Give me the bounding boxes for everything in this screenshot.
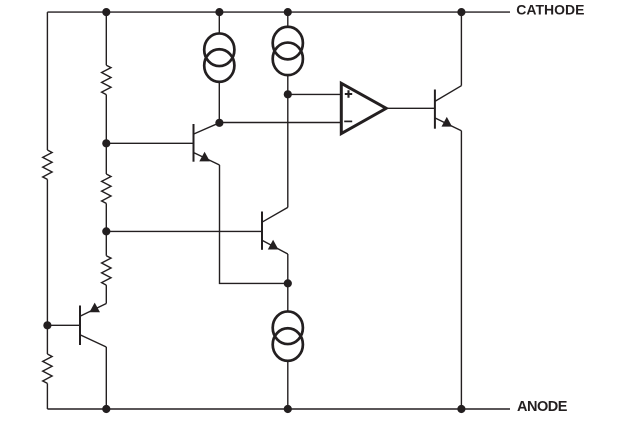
node B: I2 output / op-amp + input [284,90,292,98]
wire op-amp inverting input from Q1 collector node [219,122,341,124]
wire column2 segment R3 to R4 [105,203,107,255]
wire Q4 emitter to anode rail [460,131,462,409]
wire Q2 emitter to node C [287,254,289,283]
node C: emitters / I3 junction [284,279,292,287]
node cathode / I2 junction [284,8,292,16]
wire node C to current source I3 [287,283,289,311]
node cathode / column2 junction [102,8,110,16]
wire node B to Q2 collector [287,94,289,207]
node anode / Q3 collector junction [102,405,110,413]
node Q3 base / left column junction [43,321,51,329]
transistor Q4 [435,86,462,131]
node cathode / I1 junction [215,8,223,16]
resistor R5 [43,354,52,383]
wire column2 segment R2 to R3 [105,95,107,174]
wire Q3 base [47,324,80,326]
wire Q4 collector to cathode rail [460,12,462,86]
resistor R4 [102,256,111,285]
transistor Q3 [80,303,106,347]
svg-text:CATHODE: CATHODE [516,2,584,18]
wire Q2 base [106,230,262,232]
op-amp U1 [341,83,386,133]
transistor Q2 [262,207,288,254]
transistor Q1 [194,123,220,165]
wire current source I1 top lead [218,12,220,33]
node anode / I3 junction [284,405,292,413]
node anode / Q4 emitter junction [457,405,465,413]
svg-text:ANODE: ANODE [517,399,568,415]
wire Q3 collector to anode rail [105,347,107,409]
node R3/R4 divider tap [102,227,110,235]
wire Q1 emitter to node C [220,165,288,283]
wire current source I3 to anode rail [287,361,289,409]
wire current source I2 bottom lead [287,75,289,94]
node R2/R3 divider tap [102,139,110,147]
wire Q1 base [106,142,193,144]
wire op-amp output to Q4 base [387,107,435,109]
wire left column lower [46,383,48,409]
wire column2 top [105,12,107,65]
wire cathode rail [47,11,510,13]
wire anode rail [47,408,510,410]
resistor R2 [102,65,111,94]
resistor R3 [102,174,111,203]
node A: Q1 collector / op-amp - input [215,119,223,127]
current source I1 [204,33,234,81]
resistor R1 [43,150,52,179]
wire left column upper [46,12,48,150]
wire left column middle [46,179,48,354]
wire current source I2 top lead [287,12,289,27]
wire R4 to Q3 emitter [105,285,107,303]
current source I2 [273,27,303,75]
node cathode / Q4 collector junction [457,8,465,16]
wire current source I1 bottom lead [218,82,220,123]
wire op-amp noninverting input [288,93,342,95]
current source I3 [273,311,303,360]
